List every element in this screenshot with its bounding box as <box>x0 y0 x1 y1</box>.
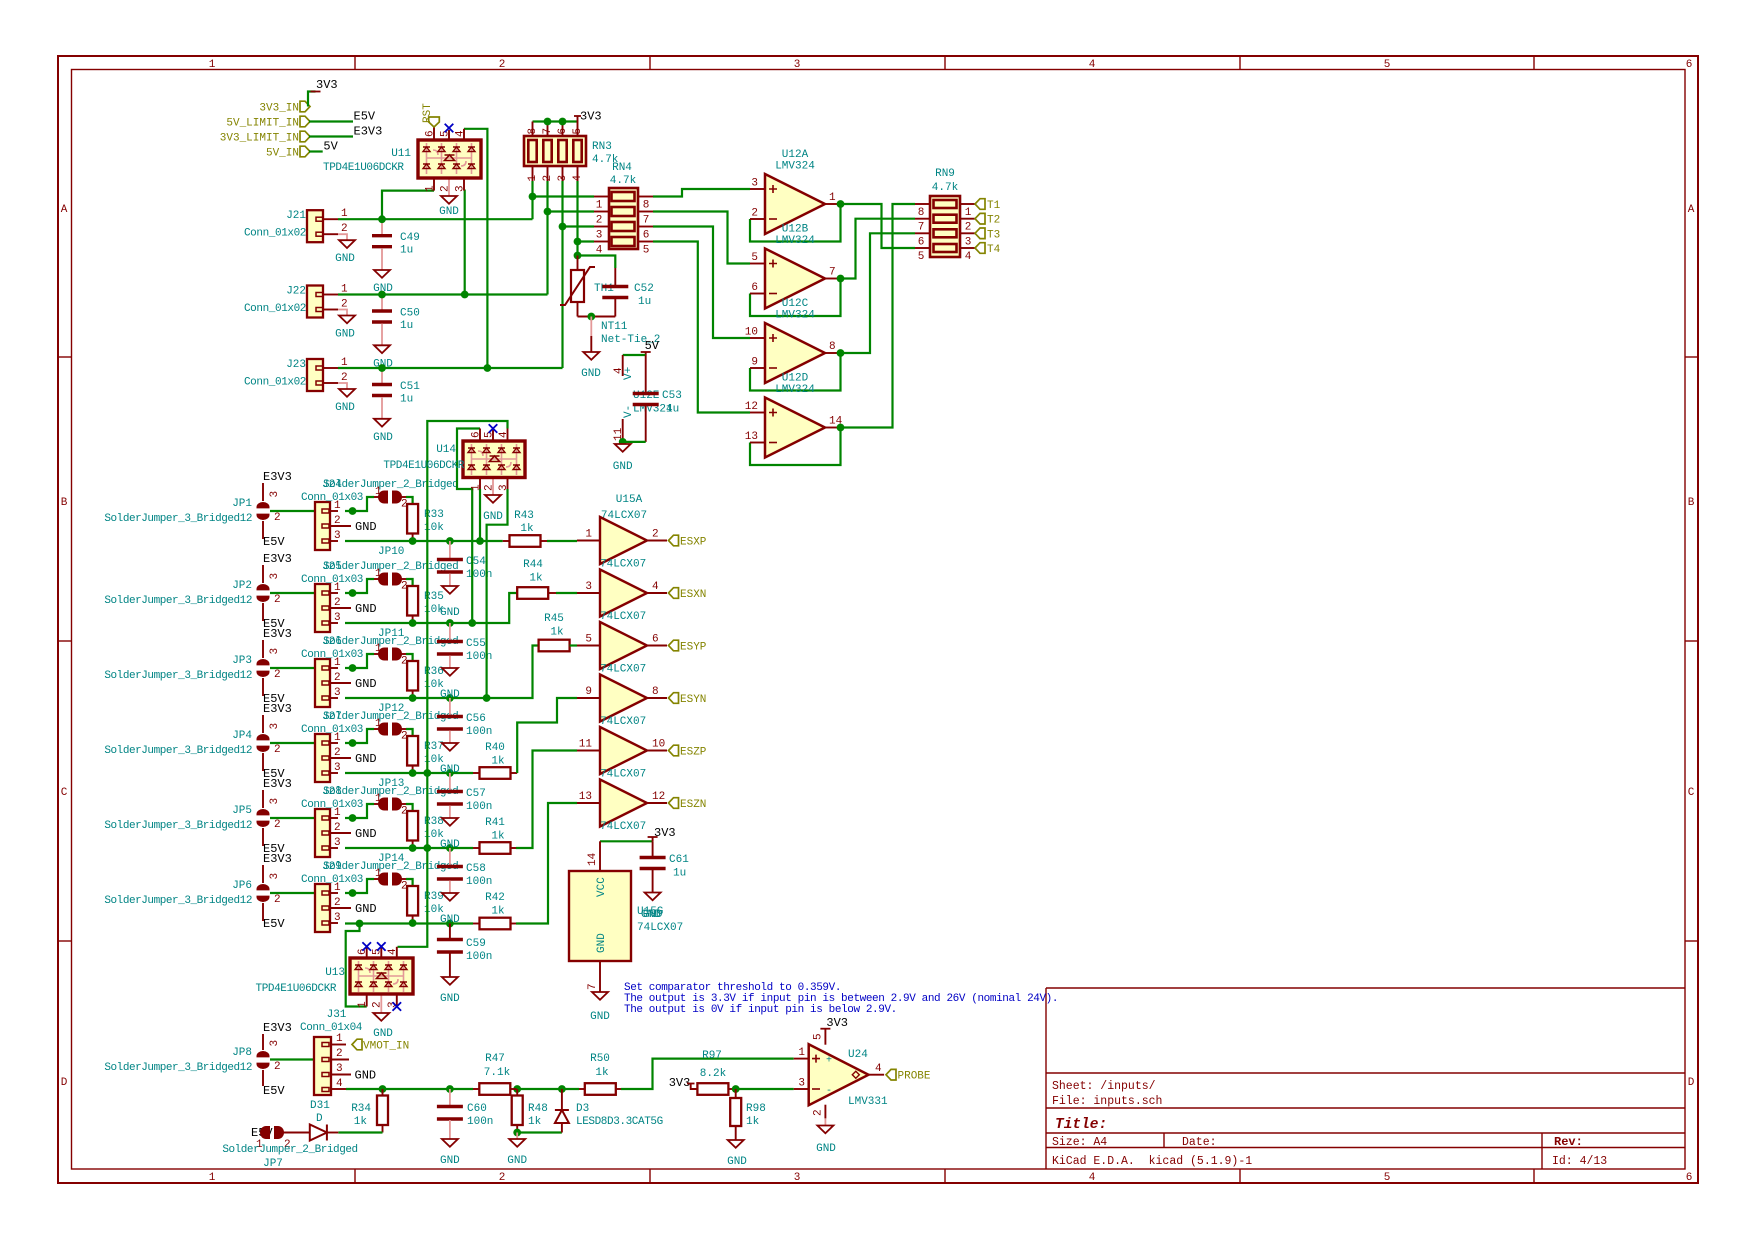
svg-text:C54: C54 <box>466 556 486 568</box>
svg-text:ESYP: ESYP <box>680 642 707 654</box>
junction R38 bottom <box>409 844 417 852</box>
ground under R98 <box>728 1140 744 1148</box>
wire J27 pin1 to jumper JP13 <box>345 729 374 743</box>
svg-text:Conn_01x03: Conn_01x03 <box>301 874 363 886</box>
svg-text:C60: C60 <box>467 1103 487 1115</box>
svg-text:C: C <box>61 787 68 799</box>
ground at U13 pin 2 <box>373 1013 389 1021</box>
svg-text:1k: 1k <box>529 573 543 585</box>
svg-text:3: 3 <box>334 762 341 774</box>
svg-text:GND: GND <box>613 461 633 473</box>
svg-text:GND: GND <box>355 1069 377 1083</box>
wire J26 pin1 to jumper JP12 <box>345 654 374 668</box>
ground under C61 <box>645 893 661 901</box>
svg-text:KiCad E.D.A. kicad (5.1.9)-1: KiCad E.D.A. kicad (5.1.9)-1 <box>1052 1155 1252 1168</box>
svg-text:3: 3 <box>334 530 341 542</box>
ESD array U14 TPD4E1U06DCKR <box>479 429 481 442</box>
svg-text:C: C <box>1688 787 1695 799</box>
svg-text:1k: 1k <box>491 831 505 843</box>
junction row5 C58 <box>446 844 454 852</box>
wire RN3 pin3 down to RN4 row3 / J23 row <box>561 181 563 368</box>
svg-text:100n: 100n <box>466 951 492 963</box>
junction U12E V- <box>619 438 627 446</box>
wire R48 bottom to D3 anode <box>517 1131 562 1133</box>
no-connect X on U11 pin 5 <box>445 124 454 133</box>
capacitor C50 1u <box>381 295 383 313</box>
svg-text:Conn_01x02: Conn_01x02 <box>244 377 306 389</box>
svg-text:GND: GND <box>335 402 355 414</box>
svg-text:1u: 1u <box>400 394 413 406</box>
wire RN3 pin1 down to RN4 row1 / J21 row <box>531 181 533 219</box>
junction RN4 row3 left <box>559 223 567 231</box>
svg-text:2: 2 <box>274 819 281 831</box>
connector J25 Conn_01x03 <box>323 592 338 594</box>
ground under C50 <box>374 345 390 353</box>
svg-text:SolderJumper_3_Bridged12: SolderJumper_3_Bridged12 <box>104 1062 252 1074</box>
svg-text:File: inputs.sch: File: inputs.sch <box>1052 1095 1162 1108</box>
svg-text:R40: R40 <box>485 742 505 754</box>
ESD array U11 TPD4E1U06DCKR <box>433 127 435 141</box>
svg-text:D: D <box>1688 1077 1695 1089</box>
svg-text:GND: GND <box>373 432 393 444</box>
svg-text:R45: R45 <box>544 613 564 625</box>
svg-text:VCC: VCC <box>596 877 608 897</box>
svg-text:1: 1 <box>336 1033 343 1045</box>
svg-text:GND: GND <box>355 902 377 916</box>
hierarchical label T2 <box>975 213 985 224</box>
no-connect X on U13 pin 6 <box>362 942 371 951</box>
wire JP3 pin2 to J26 <box>270 667 315 669</box>
svg-text:Conn_01x03: Conn_01x03 <box>301 799 363 811</box>
svg-text:1: 1 <box>798 1047 805 1059</box>
junction row2 C55 <box>446 619 454 627</box>
svg-text:6: 6 <box>643 230 650 242</box>
svg-text:A: A <box>61 204 68 216</box>
comparator U24 LMV331 <box>794 1058 809 1060</box>
hierarchical label PROBE <box>886 1069 896 1080</box>
svg-text:ESYN: ESYN <box>680 694 706 706</box>
svg-text:5: 5 <box>1384 59 1391 71</box>
hierarchical label 5V_IN <box>300 146 310 157</box>
junction RN4 row2 left <box>544 208 552 216</box>
junction row3 U14 pin3 riser <box>483 694 491 702</box>
svg-text:LMV324: LMV324 <box>775 161 815 173</box>
junction R48 bottom <box>513 1129 521 1137</box>
svg-text:1: 1 <box>375 793 382 805</box>
wire U12A output to RN9 pin5 <box>841 204 916 248</box>
svg-text:U12D: U12D <box>782 373 809 385</box>
solder jumper JP12 SolderJumper_2_Bridged <box>378 648 388 661</box>
svg-text:E3V3: E3V3 <box>263 777 292 791</box>
svg-text:C49: C49 <box>400 232 420 244</box>
ground under C49 <box>374 270 390 278</box>
svg-text:J21: J21 <box>286 210 306 222</box>
buffer U15 unit ESZN 74LCX07 <box>577 802 600 804</box>
wire U11 pin4 to J23 net <box>464 129 487 368</box>
svg-text:2: 2 <box>596 215 603 227</box>
svg-text:GND: GND <box>816 1143 836 1155</box>
svg-text:C53: C53 <box>662 390 682 402</box>
svg-text:7: 7 <box>918 222 925 234</box>
svg-text:The output is 0V if input pin: The output is 0V if input pin is below 2… <box>624 1004 897 1016</box>
svg-text:GND: GND <box>581 368 601 380</box>
svg-text:U12B: U12B <box>782 224 809 236</box>
resistor R35 10k <box>407 586 418 616</box>
wires RN4 left stubs <box>533 195 595 197</box>
wire C53 bottom to V- <box>623 441 646 443</box>
svg-text:JP2: JP2 <box>232 580 252 592</box>
wire feedback loop U12C <box>750 353 841 391</box>
connector J28 Conn_01x03 <box>323 817 338 819</box>
svg-text:74LCX07: 74LCX07 <box>637 922 683 934</box>
svg-text:R43: R43 <box>514 510 534 522</box>
svg-text:6: 6 <box>425 130 437 137</box>
svg-text:C61: C61 <box>669 854 689 866</box>
wire jumper to R39 <box>406 879 413 886</box>
svg-text:JP10: JP10 <box>378 546 404 558</box>
svg-text:1k: 1k <box>746 1116 760 1128</box>
no-connect X on U13 pin 3 <box>393 1002 402 1011</box>
svg-text:U14: U14 <box>436 444 456 456</box>
svg-text:A: A <box>1688 204 1695 216</box>
wire U12C output to RN9 pin6 <box>841 233 916 353</box>
svg-text:1u: 1u <box>400 245 413 257</box>
no-connect X on U14 pin 5 <box>489 424 498 433</box>
svg-text:1: 1 <box>471 484 483 491</box>
capacitor C52 1u <box>614 268 616 288</box>
buffer U15 unit ESXN 74LCX07 <box>577 592 600 594</box>
svg-text:4: 4 <box>965 251 972 263</box>
svg-text:4: 4 <box>1089 1172 1096 1184</box>
svg-text:Conn_01x02: Conn_01x02 <box>244 228 306 240</box>
connector J22 Conn_01x02 <box>323 294 338 296</box>
wire feedback loop U12A <box>750 204 841 242</box>
wire J23 row <box>338 367 563 369</box>
resistor R47 7.1k <box>473 1088 479 1090</box>
wire R42 to U15F input <box>516 803 577 924</box>
svg-text:7: 7 <box>587 983 599 990</box>
svg-text:R50: R50 <box>590 1053 610 1065</box>
ground under C51 <box>374 419 390 427</box>
connector J27 Conn_01x03 <box>323 742 338 744</box>
svg-text:5: 5 <box>1384 1172 1391 1184</box>
buffer U15 unit ESYP 74LCX07 <box>577 645 600 647</box>
svg-text:3: 3 <box>269 1040 281 1047</box>
svg-text:3: 3 <box>498 484 510 491</box>
power 3V3 (top left) <box>311 91 321 93</box>
wire row6 pin3 net through R42 to U15F input <box>345 922 473 924</box>
solder jumper JP6 SolderJumper_3_Bridged12 <box>262 865 264 883</box>
svg-text:GND: GND <box>590 1011 610 1023</box>
svg-text:3: 3 <box>965 236 972 248</box>
svg-text:ESZP: ESZP <box>680 747 707 759</box>
wire RN4 pin8 to U12A + <box>653 189 750 197</box>
wire row2 pin3 net to R44 <box>345 593 517 623</box>
solder jumper JP13 SolderJumper_2_Bridged <box>378 723 388 736</box>
svg-text:4.7k: 4.7k <box>932 182 959 194</box>
svg-text:Title:: Title: <box>1055 1117 1107 1133</box>
svg-text:E5V: E5V <box>263 917 285 931</box>
svg-text:4: 4 <box>652 581 659 593</box>
hierarchical label RST <box>429 117 440 127</box>
svg-text:12: 12 <box>745 401 758 413</box>
solder jumper JP4 SolderJumper_3_Bridged12 <box>262 715 264 733</box>
wire U11 pin3 to J22 net <box>463 191 466 295</box>
svg-text:2: 2 <box>274 512 281 524</box>
svg-text:8: 8 <box>643 200 650 212</box>
svg-text:2: 2 <box>274 594 281 606</box>
svg-text:1k: 1k <box>528 1116 542 1128</box>
svg-text:B: B <box>1688 497 1695 509</box>
svg-text:1u: 1u <box>673 868 686 880</box>
svg-text:LMV331: LMV331 <box>848 1096 888 1108</box>
ground under C56 <box>442 743 458 751</box>
svg-text:3: 3 <box>269 573 281 580</box>
resistor R44 1k <box>517 587 548 599</box>
svg-text:1k: 1k <box>491 756 505 768</box>
connector J31 Conn_01x04 <box>331 1044 346 1046</box>
svg-text:E3V3: E3V3 <box>263 552 292 566</box>
diode D31 <box>327 1132 338 1134</box>
solder jumper JP7 SolderJumper_2_Bridged <box>260 1126 270 1139</box>
svg-text:1k: 1k <box>520 523 534 535</box>
svg-text:8: 8 <box>829 341 836 353</box>
svg-text:5: 5 <box>643 245 650 257</box>
svg-text:1u: 1u <box>638 296 651 308</box>
svg-text:2: 2 <box>334 747 341 759</box>
power 5V (U12E) <box>641 351 651 353</box>
svg-text:GND: GND <box>439 206 459 218</box>
junction D3 top <box>558 1085 566 1093</box>
svg-text:13: 13 <box>745 431 758 443</box>
svg-text:E5V: E5V <box>354 110 376 124</box>
junction row1 U14 pin1 riser <box>476 537 484 545</box>
svg-text:3: 3 <box>455 185 467 192</box>
hierarchical label ESXP <box>669 535 679 546</box>
op-amp U12B LMV324 <box>750 263 765 265</box>
svg-text:1u: 1u <box>666 404 679 416</box>
svg-text:LMV324: LMV324 <box>775 235 815 247</box>
op-amp U12D LMV324 <box>750 412 765 414</box>
svg-text:4: 4 <box>455 130 467 137</box>
svg-text:+: + <box>826 1056 832 1067</box>
junction row4 C57 <box>446 769 454 777</box>
solder jumper JP10 SolderJumper_2_Bridged <box>378 491 388 504</box>
power 3V3 (R97) <box>687 1083 695 1085</box>
svg-text:100n: 100n <box>466 876 492 888</box>
svg-text:JP7: JP7 <box>263 1158 283 1170</box>
resistor R38 10k <box>407 811 418 841</box>
svg-text:1k: 1k <box>595 1067 609 1079</box>
junction row2 U14 pin6 riser <box>468 619 476 627</box>
svg-text:C57: C57 <box>466 788 486 800</box>
svg-text:3: 3 <box>585 581 592 593</box>
hierarchical label T3 <box>975 228 985 239</box>
wire row4 pin3 net through R40 to U15D input <box>345 772 473 774</box>
svg-text:U11: U11 <box>391 148 411 160</box>
svg-text:1k: 1k <box>550 627 564 639</box>
svg-text:5: 5 <box>585 634 592 646</box>
wire RN4 pin7 to U12B + <box>653 212 750 264</box>
svg-text:1: 1 <box>209 59 216 71</box>
svg-text:6: 6 <box>751 282 758 294</box>
svg-text:TPD4E1U06DCKR: TPD4E1U06DCKR <box>383 460 464 472</box>
hierarchical label ESXN <box>669 588 679 599</box>
svg-text:1: 1 <box>375 486 382 498</box>
svg-text:1k: 1k <box>354 1116 368 1128</box>
power 3V3 (U24) <box>820 1028 830 1030</box>
solder jumper JP3 SolderJumper_3_Bridged12 <box>262 640 264 658</box>
ground under C57 <box>442 818 458 826</box>
svg-text:R98: R98 <box>746 1103 766 1115</box>
svg-text:1: 1 <box>829 192 836 204</box>
svg-text:1: 1 <box>375 868 382 880</box>
svg-text:TPD4E1U06DCKR: TPD4E1U06DCKR <box>323 162 404 174</box>
capacitor C58 100n <box>449 848 451 868</box>
wire RN3 pin2 down to RN4 row2 / J22 row <box>546 181 548 295</box>
svg-text:VMOT_IN: VMOT_IN <box>363 1041 409 1053</box>
hierarchical label ESZN <box>669 798 679 809</box>
hierarchical label 3V3_IN <box>300 101 310 112</box>
wire row1 pin3 net to R43 <box>345 540 503 542</box>
resistor R40 1k <box>473 772 480 774</box>
svg-text:3: 3 <box>794 59 801 71</box>
svg-text:2: 2 <box>334 897 341 909</box>
junction U12B output <box>837 275 845 283</box>
wire R40 to U15D input <box>517 698 577 773</box>
svg-text:LMV324: LMV324 <box>775 384 815 396</box>
svg-text:2: 2 <box>965 222 972 234</box>
svg-text:1k: 1k <box>491 906 505 918</box>
svg-text:2: 2 <box>484 484 496 491</box>
solder jumper JP1 SolderJumper_3_Bridged12 <box>262 483 264 501</box>
wire U14 pin4 ladder down to U13 pin4 <box>398 421 508 947</box>
wire U12D output to RN9 pin8 <box>841 204 916 428</box>
svg-text:JP4: JP4 <box>232 730 252 742</box>
junction R37 bottom <box>409 769 417 777</box>
svg-text:E3V3: E3V3 <box>263 702 292 716</box>
wire row3 pin3 net to R45 <box>345 646 539 699</box>
svg-text:Conn_01x03: Conn_01x03 <box>301 724 363 736</box>
ground at J23 pin 2 <box>338 383 347 389</box>
buffer U15 unit ESZP 74LCX07 <box>577 750 600 752</box>
svg-text:Conn_01x02: Conn_01x02 <box>244 303 306 315</box>
svg-text:2: 2 <box>334 672 341 684</box>
connector J29 Conn_01x03 <box>323 892 338 894</box>
svg-text:6: 6 <box>918 236 925 248</box>
svg-text:3: 3 <box>334 912 341 924</box>
wire R43 to U15A input <box>547 540 577 542</box>
svg-text:T2: T2 <box>987 215 1000 227</box>
svg-text:U12A: U12A <box>782 149 809 161</box>
svg-text:E3V3: E3V3 <box>263 627 292 641</box>
junction U12C output <box>837 349 845 357</box>
svg-text:2: 2 <box>440 185 452 192</box>
capacitor C51 1u <box>381 368 383 386</box>
svg-text:9: 9 <box>585 686 592 698</box>
svg-text:JP1: JP1 <box>232 498 252 510</box>
svg-text:LMV324: LMV324 <box>775 310 815 322</box>
svg-text:74LCX07: 74LCX07 <box>600 559 646 571</box>
svg-text:1: 1 <box>527 175 539 182</box>
svg-text:E3V3: E3V3 <box>263 1021 292 1035</box>
svg-text:74LCX07: 74LCX07 <box>600 611 646 623</box>
svg-text:4: 4 <box>572 175 584 182</box>
svg-text:3V3: 3V3 <box>316 78 338 92</box>
svg-text:3V3_IN: 3V3_IN <box>259 103 299 115</box>
junction row1 C54 <box>446 537 454 545</box>
svg-text:6: 6 <box>471 431 483 438</box>
junction J23 row / C51 <box>378 364 386 372</box>
svg-text:8: 8 <box>527 128 539 135</box>
svg-text:2: 2 <box>334 597 341 609</box>
junction row4 ladder <box>423 769 431 777</box>
svg-text:74LCX07: 74LCX07 <box>600 664 646 676</box>
svg-text:100n: 100n <box>466 726 492 738</box>
connector J26 Conn_01x03 <box>323 667 338 669</box>
svg-text:8.2k: 8.2k <box>700 1068 727 1080</box>
svg-text:6: 6 <box>1686 1172 1693 1184</box>
wire RN4 pin6 to U12C + <box>653 227 750 339</box>
svg-text:ESXN: ESXN <box>680 589 706 601</box>
svg-text:SolderJumper_2_Bridged: SolderJumper_2_Bridged <box>323 479 458 491</box>
svg-text:RN9: RN9 <box>935 168 955 180</box>
connector J21 Conn_01x02 <box>323 218 338 220</box>
wire RN3 top bus to 3V3 <box>533 120 578 122</box>
svg-text:R97: R97 <box>702 1050 722 1062</box>
svg-text:2: 2 <box>334 515 341 527</box>
resistor network RN3 4.7k <box>532 166 534 181</box>
TVS diode D3 LESD8D3.3CAT5G <box>561 1089 563 1110</box>
wire R44 to U15B input <box>556 592 577 594</box>
wire 3V3_LIMIT_IN to E3V3 <box>309 135 353 137</box>
svg-text:6: 6 <box>557 128 569 135</box>
junction J21 row / C49 <box>378 215 386 223</box>
wire JP2 pin2 to J25 <box>270 592 315 594</box>
wire U15G VCC to 3V3 <box>600 840 653 842</box>
ground under C55 <box>442 668 458 676</box>
capacitor C54 100n <box>449 541 451 561</box>
svg-text:2: 2 <box>274 669 281 681</box>
svg-text:GND: GND <box>440 993 460 1005</box>
wire J31 pin4 row (VMOT divider) <box>346 1088 473 1090</box>
svg-text:1: 1 <box>341 208 348 220</box>
svg-text:3: 3 <box>269 873 281 880</box>
wire J28 pin1 to jumper JP14 <box>345 804 374 818</box>
junction J29 pin1 <box>349 889 357 897</box>
resistor R50 1k <box>579 1088 585 1090</box>
svg-text:3: 3 <box>269 648 281 655</box>
hierarchical label ESZP <box>669 745 679 756</box>
resistor R97 8.2k <box>697 1083 728 1095</box>
svg-text:JP5: JP5 <box>232 805 252 817</box>
svg-text:Conn_01x04: Conn_01x04 <box>300 1022 363 1034</box>
wire J24 pin1 to jumper JP10 <box>345 497 374 511</box>
wire U14 pin6 to row2 riser <box>457 429 480 624</box>
svg-text:4.7k: 4.7k <box>610 175 637 187</box>
capacitor C55 100n <box>449 623 451 643</box>
svg-text:E3V3: E3V3 <box>263 852 292 866</box>
svg-text:2: 2 <box>542 175 554 182</box>
svg-text:Sheet: /inputs/: Sheet: /inputs/ <box>1052 1080 1156 1093</box>
svg-text:Size: A4: Size: A4 <box>1052 1136 1107 1149</box>
wire 5V_LIMIT_IN to E5V <box>309 120 353 122</box>
wire JP6 pin2 to J29 <box>270 892 315 894</box>
resistor R48 1k <box>516 1089 518 1096</box>
resistor R41 1k <box>473 847 480 849</box>
junction R36 bottom <box>409 694 417 702</box>
svg-text:5: 5 <box>918 251 925 263</box>
